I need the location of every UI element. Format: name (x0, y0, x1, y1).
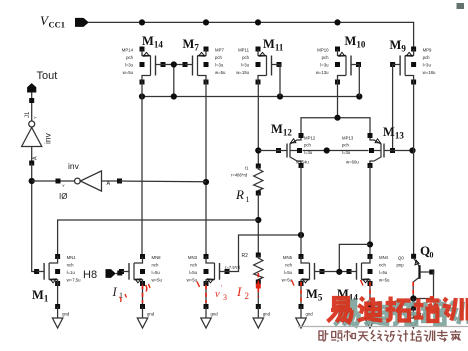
wire M9 drain to Q0 (411, 82, 416, 259)
ground M5 (296, 304, 313, 328)
label M12 (271, 122, 292, 138)
svg-text:MN1: MN1 (67, 255, 77, 260)
wire Q0 to gnd (412, 299, 414, 309)
wire M1 source (57, 284, 59, 307)
svg-text:0: 0 (430, 251, 434, 260)
svg-text:pch: pch (126, 55, 134, 60)
red label I2 (236, 284, 249, 301)
wire M9 gate drop (392, 65, 394, 151)
value R1 (231, 166, 249, 178)
transistor M13 (342, 133, 395, 168)
node bus-M14 drain (139, 93, 145, 99)
svg-text:l=1u: l=1u (67, 270, 76, 275)
separator line (298, 326, 468, 328)
wire I0 in to M7 column (120, 180, 207, 183)
red probe M3 source (205, 285, 207, 303)
red tick M3 (197, 282, 200, 288)
transistor M4 (347, 254, 391, 286)
transistor M10 (316, 47, 361, 85)
transistor M9 (390, 47, 436, 85)
red probe M5 source (300, 282, 302, 303)
svg-text:w=18u: w=18u (423, 70, 436, 75)
wire M8 source (142, 284, 144, 307)
node M3gate-M12drain (298, 232, 304, 238)
wire M12-M13 top rail (301, 118, 370, 136)
wire M14 drain to MN8 drain (141, 82, 143, 257)
wire M5 source (300, 284, 302, 307)
svg-text:Q0: Q0 (398, 256, 404, 261)
svg-text:IØ: IØ (59, 192, 67, 201)
wire M14-M7 gates (163, 65, 184, 97)
svg-text:l=3u: l=3u (241, 63, 250, 68)
svg-text:MP7: MP7 (215, 48, 224, 53)
svg-text:w=5u: w=5u (123, 70, 134, 75)
node mid bulk net (324, 147, 330, 153)
label Q0 (420, 243, 434, 260)
wire M10 gate drop (358, 65, 361, 97)
node rail-M14 (139, 19, 145, 25)
corner mark (457, 3, 465, 9)
svg-text:MP14: MP14 (122, 48, 134, 53)
red probe M4 source (369, 282, 371, 303)
red probe M8 source (142, 285, 144, 303)
red tick M5 (292, 280, 295, 286)
red probe R2 (256, 273, 261, 297)
wire M10 drain down (337, 82, 339, 118)
node bus-gates (171, 93, 177, 99)
ground R2 (253, 304, 270, 328)
svg-text:gnd: gnd (306, 312, 314, 317)
red ticks M8 (146, 284, 151, 292)
svg-text:nch: nch (285, 263, 293, 268)
svg-text:R2: R2 (242, 253, 249, 259)
svg-text:w=60u: w=60u (346, 160, 359, 165)
label I1 (112, 285, 127, 302)
watermark slogan (319, 330, 461, 342)
svg-text:pnp: pnp (397, 263, 405, 268)
node rail-M7 (203, 19, 209, 25)
svg-text:1: 1 (246, 195, 250, 204)
svg-text:l=3u: l=3u (125, 63, 134, 68)
red probe Q0 collector (412, 282, 414, 297)
wire M4 source (369, 284, 371, 307)
transistor M1 (34, 254, 81, 286)
value M13 w (346, 160, 359, 165)
node Q0 collector-base (410, 295, 416, 301)
transistor M12 (276, 133, 316, 168)
svg-text:l=5u: l=5u (379, 270, 388, 275)
svg-text:pch: pch (342, 143, 350, 148)
wire M11 gate drop (279, 65, 280, 97)
node rail-M10 (334, 19, 340, 25)
svg-text:MP13: MP13 (342, 136, 354, 141)
svg-text:A: A (107, 181, 111, 187)
node M7 col inv input (203, 179, 209, 185)
svg-text:CC1: CC1 (49, 20, 66, 30)
ground Q0 (408, 306, 425, 329)
svg-text:MP11: MP11 (238, 48, 250, 53)
wire M11 drain to R1 (257, 82, 259, 166)
node bus-M11 gate (277, 93, 283, 99)
wire M3 gate up (227, 235, 301, 272)
label M13 (383, 125, 404, 141)
svg-text:w=54u: w=54u (296, 160, 309, 165)
wire M3 source (205, 284, 207, 307)
port Tout (27, 70, 57, 93)
svg-text:w=5u: w=5u (187, 278, 198, 283)
transistor Q0 (397, 256, 435, 299)
svg-text:I: I (112, 285, 118, 299)
label M4 (337, 287, 358, 303)
svg-text:w=5u: w=5u (379, 278, 390, 283)
ground M1 (52, 304, 69, 328)
label M7 (183, 37, 200, 53)
svg-text:nch: nch (190, 263, 198, 268)
svg-text:l=3u: l=3u (423, 63, 432, 68)
svg-text:w=15u: w=15u (236, 70, 249, 75)
svg-text:pch: pch (215, 55, 223, 60)
transistor M8 (119, 254, 163, 286)
label M1 (32, 288, 49, 304)
svg-text:2: 2 (245, 291, 250, 301)
svg-text:w=5u: w=5u (215, 70, 226, 75)
svg-text:MN5: MN5 (283, 255, 293, 260)
svg-text:MN4: MN4 (379, 255, 389, 260)
wire R1-R2 column (257, 193, 259, 255)
svg-text:H8: H8 (83, 269, 97, 281)
label R1 (235, 187, 250, 204)
node gates mid (336, 269, 342, 275)
svg-text:Tout: Tout (37, 70, 58, 82)
svg-text:l=5u: l=5u (284, 270, 293, 275)
svg-text:R: R (235, 187, 244, 202)
node M13 gate-M9 drain (409, 147, 415, 153)
port H8 (83, 269, 122, 281)
svg-text:I: I (236, 284, 242, 299)
wire M13 drain to M4 drain (369, 166, 371, 257)
wire R1top to M12 gate (258, 150, 278, 152)
node top rail-M10 (334, 115, 340, 121)
svg-text:MN8: MN8 (152, 255, 162, 260)
svg-text:3: 3 (223, 293, 227, 302)
label M10 (345, 34, 366, 50)
svg-text:inv: inv (43, 132, 53, 144)
resistor R1 (254, 164, 263, 196)
svg-text:v: v (215, 289, 220, 300)
red tick M4 (361, 280, 364, 286)
value M12 w (296, 160, 309, 165)
node J1-I0 (29, 178, 35, 184)
wire M12 bulk to M13 bulk (303, 150, 369, 152)
watermark ghost (335, 300, 468, 326)
label M11 (263, 37, 284, 53)
watermark red text (328, 296, 468, 322)
transistor M5 (282, 254, 325, 286)
svg-text:gnd: gnd (211, 312, 219, 317)
transistor M3 (187, 254, 230, 286)
wire M4 diode loop (339, 244, 370, 271)
node R1R2-M1drain (255, 217, 261, 223)
wire J1 in to M1 gate (32, 163, 35, 272)
resistor R2 (254, 253, 263, 285)
wire M5-M4 gates (322, 271, 349, 273)
wire Q0 base loop (413, 272, 433, 299)
svg-text:gnd: gnd (263, 312, 271, 317)
wire M7 drain to MN3 drain (205, 82, 207, 257)
wire M13 gate to Q0 column (393, 150, 414, 152)
label M9 (390, 38, 407, 54)
value R2 (225, 265, 241, 270)
transistor M7 (183, 47, 227, 85)
svg-text:pch: pch (423, 55, 431, 60)
node M4 drain-gate loop (367, 241, 373, 247)
svg-text:Y: Y (62, 183, 65, 188)
wire diode bus (142, 96, 359, 98)
svg-text:J1: J1 (25, 111, 31, 118)
wire I0 out (32, 179, 75, 184)
svg-text:r=486*rd: r=486*rd (231, 173, 248, 178)
wire Tout to J1 (29, 93, 34, 121)
ground M4 (365, 304, 382, 328)
svg-text:nch: nch (67, 263, 75, 268)
svg-text:gnd: gnd (147, 312, 155, 317)
svg-text:l=3u: l=3u (215, 63, 224, 68)
svg-text:nch: nch (152, 263, 160, 268)
svg-text:MP12: MP12 (304, 136, 316, 141)
label M5 (306, 287, 323, 303)
svg-text:pch: pch (322, 55, 330, 60)
svg-text:MP9: MP9 (423, 48, 432, 53)
node bus-M10 gate (356, 93, 362, 99)
svg-text:w=7.5u: w=7.5u (67, 278, 82, 283)
svg-text:Y: Y (33, 116, 38, 119)
power rail VCC1 (89, 22, 414, 49)
inverter I0 (59, 161, 122, 201)
svg-text:l=5u: l=5u (152, 270, 161, 275)
svg-text:inv: inv (68, 161, 80, 171)
node M14-M7 gate (171, 61, 177, 67)
svg-text:pch: pch (304, 143, 312, 148)
svg-text:MN3: MN3 (188, 255, 198, 260)
node rail-M11 (255, 19, 261, 25)
label R2 (242, 253, 249, 259)
svg-text:nch: nch (379, 263, 387, 268)
ground M8 (137, 304, 154, 328)
svg-text:w=5u: w=5u (152, 278, 163, 283)
label M14 (142, 34, 163, 50)
red label V3 (215, 284, 227, 302)
transistor M14 (122, 47, 166, 85)
ground M3 (201, 304, 218, 328)
wire M12 drain to M5 drain (300, 166, 302, 257)
port VCC1 (40, 13, 89, 30)
svg-text:w=5u: w=5u (282, 278, 293, 283)
wire M1 drain feedback (58, 220, 259, 257)
svg-text:gnd: gnd (62, 312, 70, 317)
wire R2 to gnd (257, 282, 259, 307)
node R1 top net (255, 147, 261, 153)
svg-text:l=5u: l=5u (189, 270, 198, 275)
svg-text:l=3u: l=3u (320, 63, 329, 68)
svg-text:w=13u: w=13u (316, 70, 329, 75)
svg-text:pch: pch (242, 55, 250, 60)
svg-text:A: A (33, 156, 39, 160)
svg-text:MP10: MP10 (317, 48, 329, 53)
inverter J1 (22, 111, 53, 166)
transistor M11 (236, 47, 281, 85)
